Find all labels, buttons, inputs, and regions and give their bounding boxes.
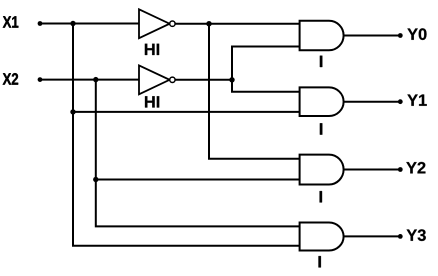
wire X1 horizontal to inverter U1 — [40, 23, 139, 25]
inverter U1 (NOT X1) triangle — [139, 9, 170, 38]
wire U1 output to Y0 gate top input — [175, 23, 299, 25]
wire X2 vertical branch down and to Y3 gate top input — [96, 80, 300, 227]
AND gate G2 (Y2) — [300, 155, 344, 185]
node NOT-X2 junction — [229, 77, 234, 82]
output label Y2 — [406, 162, 425, 173]
inverter U2 bubble — [170, 77, 175, 82]
AND gate G1 (Y1) — [300, 87, 344, 116]
wire NOT-X2 down branch to Y1 gate top input — [232, 80, 300, 92]
label HI (U2) — [145, 96, 159, 107]
AND gate G0 (Y0) — [300, 21, 344, 50]
wire G0 output — [344, 35, 400, 37]
input label X1 — [3, 16, 19, 27]
wire G2 output — [344, 169, 400, 171]
output label Y1 — [407, 95, 426, 106]
node X1 branch junction — [70, 21, 75, 26]
wire X1 branch to Y1 gate bottom input — [73, 111, 300, 113]
input terminal dot X1 — [38, 21, 43, 26]
output terminal dot Y2 — [398, 167, 403, 172]
inverter U2 (NOT X2) triangle — [139, 65, 170, 94]
node X1-to-Y1 junction — [70, 109, 75, 114]
wire X1 vertical branch down and to Y3 gate bottom input — [73, 24, 300, 246]
output terminal dot Y1 — [398, 99, 403, 104]
wire G3 output — [344, 235, 400, 237]
node X2-to-Y2 junction — [93, 177, 98, 182]
label I (G1) — [320, 123, 322, 134]
wire G1 output — [344, 101, 400, 103]
node X2 branch junction — [93, 77, 98, 82]
label I (G2) — [320, 191, 322, 202]
label I (G3) — [319, 256, 321, 267]
inverter U1 bubble — [170, 21, 175, 26]
label I (G0) — [320, 56, 322, 67]
AND gate G3 (Y3) — [300, 223, 344, 251]
output terminal dot Y0 — [398, 33, 403, 38]
input label X2 — [3, 73, 18, 84]
wire NOT-X2 up branch to Y0 gate bottom input — [232, 47, 300, 80]
input terminal dot X2 — [38, 77, 43, 82]
output terminal dot Y3 — [398, 234, 403, 239]
wire NOT-X1 vertical branch to Y2 gate top input — [209, 24, 300, 159]
output label Y0 — [407, 28, 426, 40]
label HI (U1) — [145, 44, 159, 55]
wire U2 output to junction — [175, 79, 232, 81]
wire X2 horizontal to inverter U2 — [40, 79, 139, 81]
output label Y3 — [407, 229, 426, 241]
wire X2 branch to Y2 gate bottom input — [96, 179, 300, 181]
node NOT-X1 junction — [206, 21, 211, 26]
